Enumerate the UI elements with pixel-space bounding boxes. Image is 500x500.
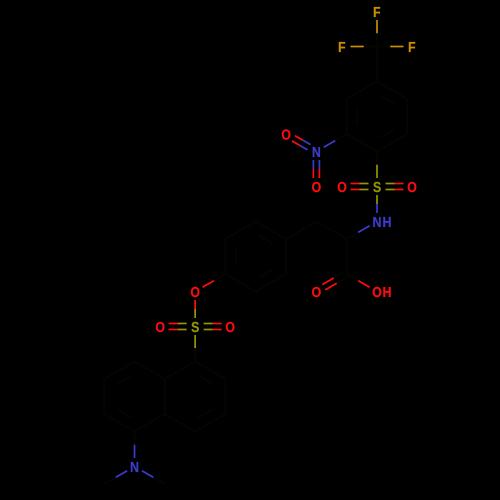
inner aromatic line A6=A1 <box>380 95 395 103</box>
inner aromatic line C5n=C6n <box>117 409 132 417</box>
atom label F1: F <box>374 7 380 17</box>
double bond S2=O9 <box>204 324 222 330</box>
bond C7-F1 <box>376 20 378 47</box>
bond C5n-N3 <box>134 432 136 459</box>
bond C1n-C2n <box>195 362 225 380</box>
inner aromatic line A2=A3 <box>356 108 358 125</box>
atom label F3: F <box>409 42 415 52</box>
bond C10-T1 <box>286 222 316 240</box>
bond T6-T1 <box>285 239 287 274</box>
inner aromatic line T1=T2 <box>258 235 273 243</box>
bond A1-A2 <box>347 82 377 100</box>
bond A3-N1 <box>324 134 347 147</box>
bond A2-A3 <box>346 99 348 134</box>
bond T1-T2 <box>256 222 286 240</box>
atom label O4: O <box>408 182 417 192</box>
atom label O6: OH <box>373 287 382 297</box>
bond C4an-C5n <box>135 414 165 432</box>
bond N3-Me1 <box>104 471 127 484</box>
bond C4n-C4an <box>165 414 195 432</box>
bond C8-C9 <box>346 239 348 274</box>
double bond S1=O3 <box>351 184 369 190</box>
double bond N1=O2 <box>313 160 319 178</box>
bond C9-O6 <box>347 274 370 287</box>
bond C7-F2 <box>351 46 378 48</box>
inner aromatic line T5=T6 <box>258 269 273 277</box>
bond N3-Me2 <box>142 471 165 484</box>
double bond S2=O8 <box>169 324 187 330</box>
bond S2-C1n <box>194 335 196 362</box>
atom label N3: N <box>131 462 138 472</box>
atom label F2: F <box>339 42 345 52</box>
bond C5n-C6n <box>104 414 134 432</box>
atom label O1: O <box>282 129 291 139</box>
double bond C9=O5 <box>322 271 348 289</box>
bond A4-A5 <box>377 134 407 152</box>
bond T4-T5 <box>225 274 255 292</box>
bond C8n-C8an <box>135 362 165 380</box>
inner aromatic line A4=A5 <box>380 129 395 137</box>
bond T4-O7 <box>203 274 226 287</box>
bond C7-F3 <box>377 46 404 48</box>
double bond S1=O4 <box>386 184 404 190</box>
atom label O2: O <box>312 182 321 192</box>
atom label O3: O <box>338 182 347 192</box>
bond A3-A4 <box>347 134 377 152</box>
bond C6n-C7n <box>103 379 105 414</box>
atom label O5: O <box>312 287 321 297</box>
atom label O9: O <box>226 322 235 332</box>
bond A6-A1 <box>377 82 407 100</box>
atom label O8: O <box>156 322 165 332</box>
bond N2-C8 <box>347 226 370 239</box>
bond T2-T3 <box>225 222 255 240</box>
atom label S1: S <box>373 182 380 192</box>
inner aromatic line T3=T4 <box>235 248 237 265</box>
bond C8-C10 <box>316 222 346 240</box>
bond A5-A6 <box>406 99 408 134</box>
bond T3-T4 <box>224 239 226 274</box>
atom label N2: NH <box>373 217 380 227</box>
inner aromatic line C3n=C4n <box>198 409 213 417</box>
bond C3n-C4n <box>195 414 225 432</box>
bond C2n-C3n <box>224 379 226 414</box>
bond O7-S2 <box>194 300 196 318</box>
atom label S2: S <box>191 322 198 332</box>
bond C8an-C1n <box>165 362 195 380</box>
atom label N1: N <box>313 147 320 157</box>
bond C7n-C8n <box>104 362 134 380</box>
atom label O7: O <box>191 287 200 297</box>
bond T5-T6 <box>256 274 286 292</box>
bond S1-N2 <box>376 195 378 213</box>
bond A4-S1 <box>376 152 378 179</box>
inner aromatic line C7n=C8n <box>117 375 132 383</box>
bond A1-C7 <box>376 47 378 82</box>
bond C4an-C8an <box>164 379 166 414</box>
double bond N1=O1 <box>292 136 311 150</box>
inner aromatic line C1n=C2n <box>198 375 213 383</box>
